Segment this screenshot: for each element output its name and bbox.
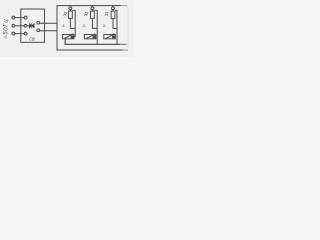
converter symbol (bowtie) — [29, 23, 34, 28]
welding post device box 3 — [104, 35, 116, 39]
wire below R3 — [113, 18, 117, 28]
wire to resistor R2 — [91, 10, 93, 11]
post 3 — [102, 6, 117, 45]
resistor R3 (ballast rheostat) — [111, 11, 115, 18]
terminal circle inner row 1 — [24, 16, 27, 19]
wire below R2 — [92, 18, 97, 28]
terminal stub post 3 — [112, 6, 114, 7]
terminal circle post 1 — [69, 7, 72, 10]
post 2 — [82, 6, 98, 45]
welding post device box 1 — [62, 35, 74, 39]
contact pad in device box 3 — [112, 35, 115, 38]
label e1 — [61, 23, 65, 28]
lever in device box 3 — [106, 34, 115, 39]
terminal circle post 2 — [91, 7, 94, 10]
label R1 — [63, 12, 67, 18]
paper texture noise — [0, 0, 1, 1]
wire to resistor R3 — [112, 10, 114, 11]
terminal circle inner row 3 — [24, 32, 27, 35]
wire row 3 into rectifier box — [15, 33, 24, 35]
scan fade on line ends — [121, 4, 130, 7]
label e3 — [102, 23, 106, 28]
lever in device box 2 — [86, 34, 95, 39]
wire hook right of R2 — [94, 10, 97, 44]
wire below R1 — [70, 18, 75, 28]
resistor R2 (ballast rheostat) — [91, 11, 95, 18]
label e2 — [82, 23, 86, 28]
label CB — [29, 37, 35, 43]
label R2 — [84, 12, 88, 18]
input terminal T3 (outer, row 3) — [12, 32, 15, 35]
wire hook right of R1 — [72, 10, 75, 36]
terminal stub post 2 — [91, 6, 93, 7]
wire down to bus post 3 — [116, 28, 118, 44]
wire from inner terminal to converter symbol — [27, 25, 29, 27]
terminal circle inner row 2 — [24, 24, 27, 27]
wire plus bus to distribution box — [40, 22, 58, 24]
input terminal T2 (outer, row 2) — [12, 24, 15, 27]
distribution box faint right edge — [127, 6, 129, 50]
wire row 2 into rectifier box — [15, 25, 24, 27]
wire minus bus to distribution box — [40, 30, 58, 32]
terminal circle post 3 — [112, 7, 115, 10]
contact pad in device box 1 — [71, 35, 74, 38]
terminal stub post 1 — [69, 6, 71, 7]
contact pad in device box 2 — [93, 35, 96, 38]
wire row 1 into rectifier box — [15, 17, 24, 19]
net label ~50Hz (rotated supply text) — [4, 19, 10, 39]
lever in device box 1 — [64, 34, 73, 39]
post 1 — [61, 6, 75, 39]
label R3 — [105, 12, 109, 18]
distribution box (welding posts) — [57, 6, 128, 50]
wire hook right of R3 — [115, 10, 117, 28]
rectifier unit box CB — [21, 9, 45, 42]
output terminal minus — [37, 29, 40, 32]
bottom bus wire — [65, 39, 126, 45]
input terminal T1 (outer, row 1) — [12, 16, 15, 19]
wire to resistor R1 — [69, 10, 71, 11]
resistor R1 (ballast rheostat) — [69, 11, 73, 18]
output terminal plus — [37, 21, 40, 24]
welding post device box 2 — [84, 35, 96, 39]
